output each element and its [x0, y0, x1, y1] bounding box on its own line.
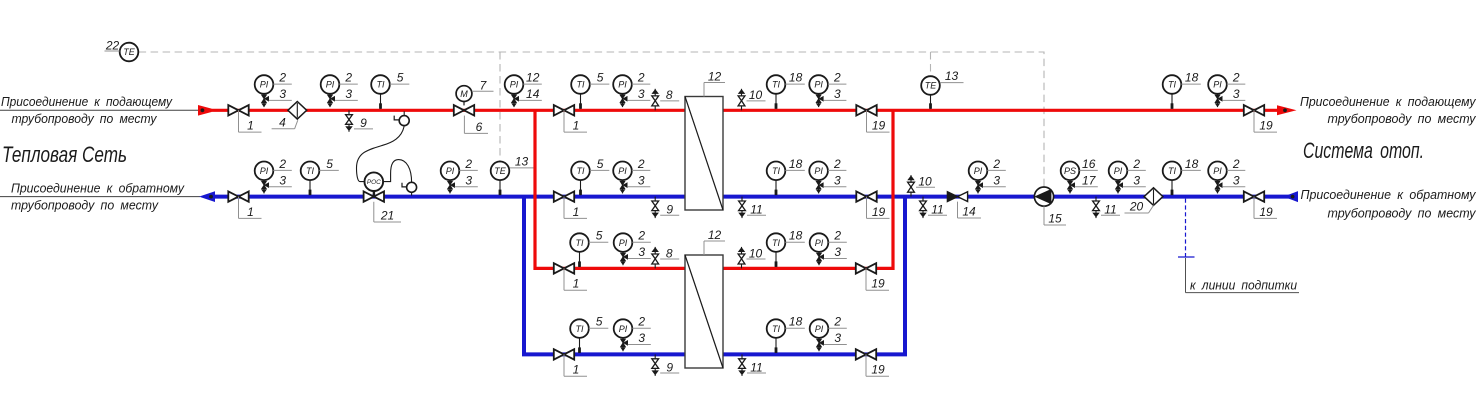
svg-text:TI: TI: [576, 324, 584, 334]
svg-text:TI: TI: [306, 166, 314, 176]
svg-text:2: 2: [637, 157, 645, 171]
svg-text:13: 13: [515, 155, 529, 169]
svg-text:PI: PI: [814, 80, 823, 90]
svg-text:1: 1: [573, 277, 580, 291]
svg-text:трубопроводу по месту: трубопроводу по месту: [1328, 206, 1477, 221]
svg-text:3: 3: [834, 173, 841, 187]
svg-text:13: 13: [945, 69, 959, 83]
svg-text:1: 1: [573, 119, 580, 133]
svg-text:TI: TI: [577, 80, 585, 90]
svg-text:TI: TI: [1168, 80, 1176, 90]
svg-text:18: 18: [1185, 157, 1199, 171]
svg-text:5: 5: [397, 71, 404, 85]
svg-text:PI: PI: [815, 324, 824, 334]
svg-text:PI: PI: [1213, 80, 1222, 90]
svg-text:к линии подпитки: к линии подпитки: [1190, 278, 1297, 293]
svg-text:3: 3: [638, 173, 645, 187]
svg-text:11: 11: [931, 203, 943, 217]
svg-text:PI: PI: [619, 324, 628, 334]
svg-text:3: 3: [1233, 87, 1240, 101]
svg-text:5: 5: [326, 157, 333, 171]
svg-text:9: 9: [666, 203, 673, 217]
svg-text:3: 3: [279, 87, 286, 101]
svg-text:12: 12: [526, 71, 540, 85]
svg-text:PI: PI: [974, 166, 983, 176]
svg-text:Присоединение к подающему: Присоединение к подающему: [1, 94, 173, 109]
svg-text:18: 18: [789, 229, 803, 243]
svg-text:19: 19: [872, 205, 886, 219]
svg-text:Присоединение к обратному: Присоединение к обратному: [1301, 187, 1477, 202]
svg-text:19: 19: [871, 363, 885, 377]
svg-text:2: 2: [637, 315, 645, 329]
svg-text:8: 8: [666, 246, 673, 260]
svg-text:1: 1: [573, 363, 580, 377]
svg-text:12: 12: [708, 228, 722, 242]
svg-text:2: 2: [637, 71, 645, 85]
svg-text:5: 5: [596, 229, 603, 243]
svg-text:2: 2: [1232, 71, 1240, 85]
svg-text:10: 10: [918, 175, 932, 189]
svg-text:трубопроводу по месту: трубопроводу по месту: [12, 111, 158, 126]
svg-text:2: 2: [833, 157, 841, 171]
svg-text:11: 11: [750, 203, 762, 217]
svg-text:1: 1: [247, 205, 254, 219]
svg-text:TE: TE: [494, 166, 506, 176]
svg-text:трубопроводу по месту: трубопроводу по месту: [1328, 111, 1477, 126]
svg-text:5: 5: [597, 157, 604, 171]
svg-text:6: 6: [476, 120, 483, 134]
svg-text:3: 3: [1133, 173, 1140, 187]
svg-text:PI: PI: [326, 80, 335, 90]
svg-text:PI: PI: [619, 238, 628, 248]
svg-text:TE: TE: [123, 47, 135, 57]
svg-text:15: 15: [1048, 212, 1062, 226]
svg-text:3: 3: [638, 245, 645, 259]
svg-text:1: 1: [247, 119, 254, 133]
svg-text:2: 2: [278, 71, 286, 85]
svg-text:TI: TI: [577, 166, 585, 176]
svg-text:18: 18: [789, 157, 803, 171]
svg-text:12: 12: [708, 70, 722, 84]
svg-text:PI: PI: [618, 80, 627, 90]
svg-text:Тепловая Сеть: Тепловая Сеть: [2, 142, 127, 167]
svg-text:трубопроводу по месту: трубопроводу по месту: [11, 198, 159, 213]
svg-text:22: 22: [105, 38, 120, 52]
svg-text:РОС: РОС: [367, 179, 381, 186]
svg-text:M: M: [460, 89, 468, 99]
svg-text:PI: PI: [815, 238, 824, 248]
svg-text:9: 9: [666, 360, 673, 374]
svg-text:20: 20: [1129, 200, 1144, 214]
svg-text:5: 5: [597, 71, 604, 85]
svg-text:18: 18: [789, 315, 803, 329]
svg-text:TI: TI: [1168, 166, 1176, 176]
svg-text:2: 2: [833, 315, 841, 329]
svg-text:TI: TI: [576, 238, 584, 248]
svg-text:TI: TI: [772, 166, 780, 176]
svg-text:2: 2: [833, 229, 841, 243]
svg-text:TI: TI: [772, 324, 780, 334]
svg-text:4: 4: [279, 115, 286, 129]
svg-text:3: 3: [465, 173, 472, 187]
svg-text:18: 18: [1185, 71, 1199, 85]
svg-text:19: 19: [1259, 119, 1273, 133]
svg-text:3: 3: [638, 331, 645, 345]
svg-text:14: 14: [526, 87, 540, 101]
svg-text:PI: PI: [1213, 166, 1222, 176]
svg-text:2: 2: [637, 229, 645, 243]
svg-text:11: 11: [1104, 203, 1116, 217]
svg-text:10: 10: [749, 88, 763, 102]
svg-text:TI: TI: [772, 238, 780, 248]
svg-text:19: 19: [872, 119, 886, 133]
svg-text:3: 3: [834, 87, 841, 101]
svg-text:3: 3: [834, 331, 841, 345]
svg-text:5: 5: [596, 315, 603, 329]
svg-text:17: 17: [1082, 173, 1097, 187]
svg-text:3: 3: [834, 245, 841, 259]
svg-text:2: 2: [1232, 157, 1240, 171]
svg-text:3: 3: [1233, 173, 1240, 187]
svg-text:2: 2: [992, 157, 1000, 171]
svg-text:2: 2: [344, 71, 352, 85]
svg-text:Система отоп.: Система отоп.: [1303, 138, 1424, 163]
svg-text:19: 19: [871, 277, 885, 291]
svg-text:PI: PI: [260, 80, 269, 90]
svg-text:14: 14: [962, 205, 976, 219]
svg-text:TE: TE: [925, 81, 937, 91]
svg-text:PI: PI: [510, 80, 519, 90]
svg-text:2: 2: [278, 157, 286, 171]
svg-text:10: 10: [749, 246, 763, 260]
svg-text:18: 18: [789, 71, 803, 85]
svg-text:2: 2: [464, 157, 472, 171]
svg-text:PS: PS: [1064, 166, 1076, 176]
svg-text:3: 3: [345, 87, 352, 101]
svg-text:8: 8: [666, 88, 673, 102]
svg-text:2: 2: [1132, 157, 1140, 171]
svg-text:2: 2: [833, 71, 841, 85]
svg-text:PI: PI: [260, 166, 269, 176]
svg-text:11: 11: [750, 360, 762, 374]
svg-text:PI: PI: [814, 166, 823, 176]
svg-text:TI: TI: [772, 80, 780, 90]
svg-text:TI: TI: [377, 80, 385, 90]
svg-text:Присоединение к подающему: Присоединение к подающему: [1300, 94, 1477, 109]
svg-text:3: 3: [279, 173, 286, 187]
svg-text:16: 16: [1082, 157, 1096, 171]
svg-text:PI: PI: [618, 166, 627, 176]
svg-text:1: 1: [573, 205, 580, 219]
svg-text:Присоединение к обратному: Присоединение к обратному: [11, 181, 185, 196]
svg-text:PI: PI: [1114, 166, 1123, 176]
svg-text:9: 9: [360, 116, 367, 130]
svg-text:3: 3: [993, 173, 1000, 187]
svg-text:3: 3: [638, 87, 645, 101]
svg-text:PI: PI: [446, 166, 455, 176]
svg-text:21: 21: [380, 209, 394, 223]
svg-text:19: 19: [1259, 205, 1273, 219]
